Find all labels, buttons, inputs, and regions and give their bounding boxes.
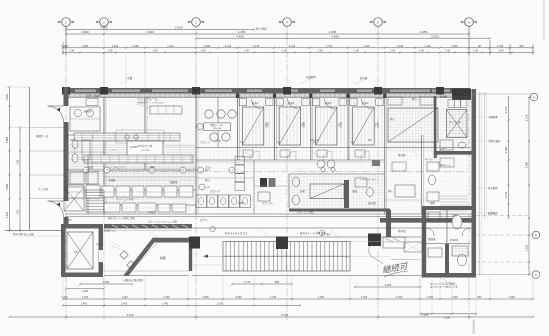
left exterior wall bbox=[64, 87, 69, 106]
long stair treads bbox=[225, 242, 227, 272]
svg-text:1.360: 1.360 bbox=[397, 44, 404, 48]
shaft grid box bbox=[446, 109, 467, 137]
partition y205 kitchen bbox=[104, 204, 196, 206]
left laundry bbox=[70, 172, 84, 184]
svg-text:浴室: 浴室 bbox=[452, 213, 458, 217]
svg-text:ホール: ホール bbox=[425, 157, 433, 161]
washroom small fixtures bbox=[355, 178, 367, 187]
partition x196 bbox=[195, 93, 197, 214]
svg-text:1.403: 1.403 bbox=[121, 303, 128, 306]
corridor wall y160 bbox=[196, 159, 384, 161]
column block 2 bbox=[276, 237, 288, 250]
guest room 3 bed bbox=[315, 107, 337, 145]
terrace line2 bbox=[192, 236, 421, 238]
top wall sill row bbox=[65, 94, 470, 97]
svg-text:カウンター: カウンター bbox=[262, 201, 275, 205]
grid bubble X3 bbox=[192, 18, 201, 27]
svg-text:ひさし: ひさし bbox=[96, 242, 104, 246]
annex door arc lower bbox=[48, 201, 64, 217]
lower-center room texture bbox=[290, 174, 384, 208]
lounge table label box bbox=[204, 123, 231, 131]
lounge side circle bbox=[197, 123, 203, 129]
hall closet row top bbox=[448, 100, 454, 108]
guest room 2 bed bbox=[279, 107, 301, 145]
line above handwriting bbox=[391, 259, 421, 261]
stair arrow bbox=[205, 255, 223, 257]
kitchen mid shelf lines bbox=[104, 176, 196, 178]
kitchen flooring stripes bbox=[66, 143, 196, 176]
guest room floor stripes bbox=[239, 98, 274, 147]
svg-text:950: 950 bbox=[477, 296, 482, 299]
lower strip top wall bbox=[104, 224, 192, 229]
canopy diamond marks bbox=[120, 251, 128, 259]
dimension line left outer bbox=[9, 87, 11, 230]
dimension line left inner bbox=[19, 128, 21, 231]
svg-text:1FL+150 タイル貼: 1FL+150 タイル貼 bbox=[13, 232, 34, 236]
svg-text:1.403: 1.403 bbox=[361, 296, 368, 299]
svg-text:客室2: 客室2 bbox=[288, 101, 295, 105]
main bottom wall double line bbox=[65, 213, 472, 215]
handwritten leader squiggle bbox=[369, 246, 383, 264]
dimension bottom-right small bbox=[420, 313, 476, 315]
eave lines right of wall bbox=[479, 92, 481, 275]
locker column right of lounge bbox=[235, 157, 245, 165]
kitchen equipment row lower bbox=[68, 185, 84, 198]
annex bottom line bbox=[5, 229, 66, 231]
svg-text:客室1: 客室1 bbox=[252, 101, 259, 105]
svg-text:GB: GB bbox=[207, 187, 211, 189]
handwritten note bbox=[381, 261, 409, 275]
dimension line top tier4 bbox=[63, 47, 533, 49]
svg-text:便所: 便所 bbox=[430, 201, 436, 205]
svg-text:4.910: 4.910 bbox=[127, 313, 134, 317]
annex door arc upper bbox=[48, 106, 64, 122]
svg-text:2.000: 2.000 bbox=[175, 26, 183, 30]
svg-text:1.403: 1.403 bbox=[112, 44, 119, 48]
svg-text:宿直室: 宿直室 bbox=[84, 109, 92, 113]
left cross box bbox=[64, 187, 84, 211]
kitchen band mid bbox=[84, 155, 193, 163]
svg-text:洗面室: 洗面室 bbox=[428, 237, 436, 241]
kitchen circles bbox=[125, 135, 129, 139]
dimension line right inner bbox=[508, 97, 510, 218]
guest room 4 entry door arc bbox=[361, 99, 371, 109]
dimension line top tier2 bbox=[66, 33, 469, 35]
hall top wall y151-155 bbox=[434, 151, 472, 155]
terrace fixture mid bbox=[404, 242, 422, 252]
svg-text:1.100: 1.100 bbox=[82, 290, 89, 293]
terrace symbol right bbox=[319, 230, 324, 235]
svg-text:EV: EV bbox=[74, 250, 78, 254]
svg-text:750×900: 750×900 bbox=[213, 127, 222, 130]
corridor texture bbox=[198, 149, 471, 160]
svg-text:機械室: 機械室 bbox=[440, 95, 448, 99]
hall door arc bbox=[436, 148, 446, 158]
grid bubble X4 bbox=[283, 18, 292, 27]
svg-text:1.40: 1.40 bbox=[69, 50, 74, 53]
wash circles corridor bbox=[317, 160, 325, 168]
svg-text:客室4: 客室4 bbox=[362, 101, 369, 105]
ramp hatched diagonal band bbox=[124, 238, 158, 276]
svg-text:1.245: 1.245 bbox=[451, 296, 458, 299]
right leader notes bbox=[476, 116, 487, 118]
svg-text:EVホール: EVホール bbox=[440, 163, 451, 167]
svg-text:和室: 和室 bbox=[300, 189, 306, 193]
svg-text:1.050: 1.050 bbox=[318, 296, 325, 299]
svg-text:手摺り増設: 手摺り増設 bbox=[488, 139, 501, 143]
kitchen counter label box bbox=[127, 141, 163, 156]
svg-text:1.050: 1.050 bbox=[202, 296, 209, 299]
left room bath box bbox=[70, 107, 100, 131]
terrace bottom line bbox=[192, 275, 421, 277]
svg-text:1.050: 1.050 bbox=[451, 44, 458, 48]
svg-text:1.985: 1.985 bbox=[268, 121, 270, 127]
bathroom block bottom wall bbox=[422, 273, 476, 278]
extension lines wall to dims bbox=[103, 55, 105, 88]
svg-text:屋根: 屋根 bbox=[160, 256, 166, 260]
svg-text:A: A bbox=[533, 95, 535, 99]
wash basins lower bbox=[293, 177, 300, 187]
svg-text:客室3: 客室3 bbox=[325, 101, 332, 105]
svg-text:1.190: 1.190 bbox=[444, 317, 451, 320]
svg-text:1.40: 1.40 bbox=[318, 50, 323, 53]
ramp leader bbox=[112, 246, 128, 252]
lower room table bbox=[310, 184, 344, 199]
svg-text:1.40: 1.40 bbox=[244, 50, 249, 53]
banquet closet bbox=[388, 97, 402, 105]
partition y135 left bbox=[65, 134, 104, 136]
bottom-right exterior wall band bbox=[380, 218, 472, 223]
tiny leader lines bbox=[140, 104, 150, 108]
partition x104 bbox=[103, 97, 105, 214]
interior stair treads bbox=[86, 190, 104, 212]
dimension row bottom tier4 bbox=[10, 316, 534, 318]
svg-text:物入: 物入 bbox=[412, 97, 418, 101]
svg-text:RCカウンタ: RCカウンタ bbox=[138, 144, 153, 148]
grid bubble X1 bbox=[62, 18, 71, 27]
terrace top line bbox=[192, 227, 472, 229]
svg-text:洗面: 洗面 bbox=[352, 189, 358, 193]
guest room 4 bed bbox=[353, 107, 375, 145]
svg-text:4.455: 4.455 bbox=[420, 30, 428, 34]
dimension line top tier1 bbox=[66, 29, 254, 31]
svg-text:クローク: クローク bbox=[210, 189, 221, 193]
dimension line top tier3 bbox=[196, 37, 490, 39]
svg-text:押入: 押入 bbox=[388, 189, 394, 193]
axis line mid bbox=[65, 171, 471, 173]
svg-text:配膳室: 配膳室 bbox=[170, 180, 178, 184]
hall fixtures below shaft bbox=[440, 140, 453, 150]
guest room 1 closet boxes bbox=[239, 99, 247, 106]
svg-text:1.740: 1.740 bbox=[326, 44, 333, 48]
svg-text:1.40: 1.40 bbox=[153, 50, 158, 53]
svg-text:ポンプ室: ポンプ室 bbox=[38, 187, 48, 191]
bathroom block top wall bbox=[422, 206, 476, 210]
partition x385 bbox=[384, 93, 386, 214]
hall lower fixtures bbox=[427, 162, 439, 171]
svg-text:1.140: 1.140 bbox=[167, 44, 174, 48]
tatami room texture bbox=[386, 96, 434, 151]
svg-text:ガス台: ガス台 bbox=[148, 210, 156, 214]
svg-text:スイッチルーム: スイッチルーム bbox=[137, 96, 158, 101]
guest room 1 bed bbox=[242, 107, 263, 145]
partition x421 hall bbox=[421, 135, 423, 214]
svg-text:1.985: 1.985 bbox=[378, 121, 380, 127]
svg-text:既存スチール手摺 塗装: 既存スチール手摺 塗装 bbox=[300, 231, 326, 235]
mb circle symbols bbox=[198, 167, 204, 173]
note above wall 2 bbox=[355, 79, 366, 84]
dimension row bottom partial bbox=[80, 283, 132, 285]
kitchen clutter lines bbox=[104, 167, 196, 169]
svg-text:WC: WC bbox=[70, 139, 74, 142]
svg-text:1.403: 1.403 bbox=[121, 296, 128, 299]
svg-text:1.460: 1.460 bbox=[5, 93, 9, 100]
top exterior wall bbox=[65, 88, 470, 93]
svg-text:1.40: 1.40 bbox=[282, 50, 287, 53]
svg-text:1.170: 1.170 bbox=[505, 191, 508, 198]
corridor wall y147.5 bbox=[196, 147, 471, 149]
svg-text:2.035: 2.035 bbox=[385, 283, 392, 287]
dimension line right outer bbox=[528, 97, 530, 275]
top wall columns bbox=[62, 87, 70, 95]
grid bubble X2 bbox=[100, 18, 109, 27]
column block 1 bbox=[189, 237, 200, 249]
fixture diamonds bbox=[321, 167, 326, 173]
banquet room bed bbox=[388, 108, 438, 142]
svg-text:1.050: 1.050 bbox=[204, 44, 211, 48]
svg-text:L=2.135: L=2.135 bbox=[141, 150, 150, 152]
svg-text:AD: AD bbox=[68, 219, 72, 222]
svg-text:1.403: 1.403 bbox=[363, 44, 370, 48]
svg-text:8.455: 8.455 bbox=[282, 313, 289, 317]
hall room texture bbox=[437, 96, 471, 154]
note above wall left bbox=[120, 79, 132, 84]
svg-text:2.130: 2.130 bbox=[525, 244, 529, 251]
kitchen row bottom bbox=[104, 203, 120, 212]
svg-text:860: 860 bbox=[275, 280, 280, 284]
grid line X6 bbox=[468, 26, 470, 320]
svg-text:一部耐水合板 張替: 一部耐水合板 張替 bbox=[122, 278, 143, 282]
svg-text:1.890: 1.890 bbox=[81, 30, 89, 34]
note above wall 1 bbox=[300, 78, 312, 84]
svg-text:避難器具: 避難器具 bbox=[488, 211, 498, 215]
svg-text:1.140: 1.140 bbox=[424, 44, 431, 48]
long stair mid line bbox=[223, 255, 350, 257]
svg-text:1.985: 1.985 bbox=[341, 121, 343, 127]
elevator shaft walls bbox=[61, 224, 103, 229]
grid line X3 bbox=[195, 26, 197, 320]
svg-text:手洗: 手洗 bbox=[95, 94, 101, 98]
guest room 2 closet boxes bbox=[276, 99, 284, 106]
long stair outline bbox=[223, 242, 350, 272]
svg-text:物干場: 物干場 bbox=[398, 229, 406, 233]
svg-text:管理ブース: 管理ブース bbox=[36, 134, 49, 138]
lower zone lines bbox=[196, 177, 254, 179]
grid bubble X5 bbox=[374, 18, 383, 27]
dimension row bottom tier2 bbox=[63, 298, 533, 300]
bathroom partition bbox=[446, 210, 448, 273]
guest room 3 closet boxes bbox=[312, 99, 320, 106]
svg-text:h=1.200: h=1.200 bbox=[310, 139, 320, 142]
svg-text:4.550: 4.550 bbox=[100, 26, 108, 30]
partition y190 left bbox=[65, 189, 196, 191]
elevator cab cross bbox=[67, 232, 93, 269]
svg-text:1.403: 1.403 bbox=[396, 296, 403, 299]
guest room 4 closet boxes bbox=[350, 99, 358, 106]
svg-text:2.140: 2.140 bbox=[225, 44, 232, 48]
svg-text:1.450: 1.450 bbox=[238, 202, 245, 205]
ramp bottom edge bbox=[104, 275, 189, 277]
svg-text:フローリング貼: フローリング貼 bbox=[296, 210, 314, 214]
svg-text:4.500: 4.500 bbox=[146, 30, 154, 34]
bathroom fixtures bbox=[452, 215, 462, 229]
svg-text:2H1200: 2H1200 bbox=[450, 240, 459, 242]
grid bubble X6 bbox=[465, 18, 474, 27]
svg-text:B: B bbox=[535, 233, 537, 237]
lounge chairs row1 bbox=[205, 110, 213, 118]
svg-text:1.050: 1.050 bbox=[427, 296, 434, 299]
svg-text:2.980: 2.980 bbox=[525, 161, 529, 168]
ramp interior line bbox=[131, 242, 158, 271]
hall stair lines bbox=[440, 195, 468, 197]
grid bubble Y3 bbox=[532, 271, 540, 279]
corridor door swings bbox=[250, 151, 259, 160]
lower zone partition x254 bbox=[253, 160, 255, 214]
svg-text:2.140: 2.140 bbox=[289, 44, 296, 48]
svg-text:宴会場: 宴会場 bbox=[398, 153, 406, 157]
svg-text:押入: 押入 bbox=[390, 117, 396, 121]
dimension row bottom tier3 bbox=[63, 305, 300, 307]
svg-text:1.40: 1.40 bbox=[473, 50, 478, 53]
terrace circle symbol bbox=[210, 227, 215, 232]
svg-text:排水竪管: 排水竪管 bbox=[488, 186, 498, 190]
svg-text:1.40: 1.40 bbox=[201, 50, 206, 53]
guest room 2 entry door arc bbox=[288, 99, 298, 109]
kitchen dashed service lines bbox=[108, 170, 192, 172]
lounge chairs row2 bbox=[210, 133, 218, 141]
elevator door bbox=[98, 250, 100, 262]
grid line X4 bbox=[286, 26, 288, 320]
svg-text:1.40: 1.40 bbox=[108, 50, 113, 53]
bathroom block left wall bbox=[422, 206, 427, 277]
terrace faint continuation lines bbox=[350, 241, 421, 243]
hall west wall x434 bbox=[434, 96, 437, 158]
svg-text:+手摺: +手摺 bbox=[126, 76, 133, 80]
svg-text:1.050: 1.050 bbox=[82, 44, 89, 48]
svg-text:2.145: 2.145 bbox=[217, 303, 224, 306]
partition y170 left block bbox=[65, 169, 196, 171]
svg-text:h=750: h=750 bbox=[130, 146, 138, 149]
wc booth row bbox=[196, 195, 207, 208]
svg-text:MB-6: MB-6 bbox=[205, 170, 211, 172]
svg-text:1.40: 1.40 bbox=[354, 50, 359, 53]
annex division lines bbox=[29, 127, 63, 129]
svg-text:AD: AD bbox=[368, 139, 372, 142]
svg-text:4.455: 4.455 bbox=[236, 34, 244, 38]
svg-text:1.40: 1.40 bbox=[499, 50, 504, 53]
svg-text:床の間: 床の間 bbox=[368, 201, 376, 205]
floor texture main bbox=[69, 98, 471, 214]
svg-text:冷蔵庫: 冷蔵庫 bbox=[108, 178, 116, 182]
partition y152 left bbox=[65, 151, 104, 153]
svg-text:5.520: 5.520 bbox=[431, 34, 439, 38]
left extension lines bbox=[5, 86, 30, 88]
svg-text:1.40: 1.40 bbox=[445, 50, 450, 53]
guest room partitions bbox=[237, 93, 239, 160]
bathroom leader note bbox=[440, 278, 452, 283]
svg-text:1.460: 1.460 bbox=[508, 296, 515, 299]
svg-text:ロビー: ロビー bbox=[205, 165, 213, 169]
svg-text:1.880: 1.880 bbox=[5, 183, 9, 190]
kitchen hood dashed bbox=[116, 130, 164, 143]
box near column3 bbox=[383, 237, 405, 248]
svg-text:2.747: 2.747 bbox=[244, 280, 251, 284]
svg-text:1.300: 1.300 bbox=[103, 280, 110, 284]
right leader lines bbox=[470, 93, 530, 95]
svg-text:軒先樋: 軒先樋 bbox=[360, 76, 368, 80]
lower strip under line bbox=[104, 230, 192, 232]
corridor fixture boxes bbox=[243, 150, 253, 157]
svg-text:2.140: 2.140 bbox=[253, 44, 260, 48]
switch room box bbox=[150, 106, 182, 114]
svg-text:S=1/60: S=1/60 bbox=[256, 27, 267, 31]
dimension line top tier5 bbox=[63, 51, 533, 53]
grid line X2 bbox=[103, 26, 105, 320]
ramp hatched top band bbox=[153, 238, 192, 242]
dimension extension verticals top bbox=[62, 42, 64, 55]
svg-text:3.214: 3.214 bbox=[525, 114, 529, 121]
svg-text:物入: 物入 bbox=[205, 178, 211, 182]
svg-text:1.403: 1.403 bbox=[82, 296, 89, 299]
lower strip window marks bbox=[112, 225, 118, 228]
svg-text:1.485: 1.485 bbox=[61, 44, 68, 48]
svg-text:防水モルタル金ゴテ: 防水モルタル金ゴテ bbox=[225, 231, 248, 235]
svg-text:2.145: 2.145 bbox=[163, 296, 170, 299]
svg-text:1.460: 1.460 bbox=[81, 303, 88, 306]
svg-text:1.460: 1.460 bbox=[162, 303, 169, 306]
switch leader bbox=[135, 104, 150, 108]
annex leader note bbox=[12, 235, 60, 237]
bathroom door arcs bbox=[426, 228, 434, 236]
left wc fixtures bbox=[72, 140, 78, 149]
cloak boxes bbox=[260, 178, 267, 187]
svg-text:1.460: 1.460 bbox=[61, 296, 68, 299]
svg-text:厨房: 厨房 bbox=[150, 165, 156, 169]
svg-text:4.455: 4.455 bbox=[331, 34, 339, 38]
svg-text:外部照明: 外部照明 bbox=[306, 75, 316, 79]
svg-text:2.455: 2.455 bbox=[132, 44, 139, 48]
lower-center room walls bbox=[289, 209, 390, 212]
svg-text:外部サッシ: 外部サッシ bbox=[104, 229, 117, 233]
svg-text:2.060: 2.060 bbox=[235, 296, 242, 299]
svg-text:1.170: 1.170 bbox=[505, 106, 508, 113]
grid bubble Y2 bbox=[532, 231, 540, 239]
svg-text:1.880: 1.880 bbox=[5, 136, 9, 143]
axis bubbles mid bbox=[83, 167, 89, 173]
grid line X5 bbox=[377, 26, 379, 320]
grid line X1 bbox=[65, 26, 67, 320]
partition x218 lounge bbox=[217, 97, 219, 147]
svg-text:ドライエリア: ドライエリア bbox=[110, 165, 125, 169]
svg-text:2.145: 2.145 bbox=[270, 296, 277, 299]
svg-text:1.40: 1.40 bbox=[419, 50, 424, 53]
svg-text:洗濯: 洗濯 bbox=[88, 165, 94, 169]
bottom extension lines bbox=[62, 277, 64, 300]
svg-text:1.91: 1.91 bbox=[17, 209, 20, 214]
partition x145 bbox=[144, 97, 146, 170]
right exterior wall bbox=[472, 89, 477, 277]
svg-text:1.40: 1.40 bbox=[390, 50, 395, 53]
